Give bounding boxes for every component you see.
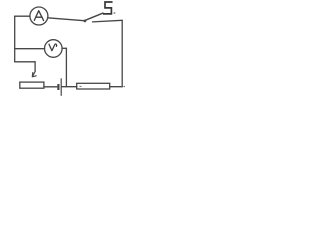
- wire voltmeter left horizontal: [15, 48, 45, 50]
- wire bottom-right horizontal: [110, 86, 123, 88]
- rheostat slider arrowhead: [32, 72, 36, 77]
- rheostat box: [20, 82, 44, 88]
- wire left vertical rail: [14, 16, 16, 62]
- wire rheostat slider vertical: [34, 62, 36, 72]
- voltmeter V1 circle: [45, 40, 63, 58]
- switch S label: [104, 2, 112, 14]
- ammeter A1 circle: [30, 7, 48, 25]
- resistor R inner mark: [80, 85, 82, 87]
- switch pivot dot: [84, 20, 87, 23]
- wire right vertical rail: [121, 20, 123, 86]
- resistor R box: [77, 83, 110, 89]
- wire voltmeter right horizontal: [62, 47, 66, 49]
- switch fixed contact wire: [93, 20, 123, 22]
- bottom-right corner tick: [123, 86, 125, 88]
- wire resistor to battery: [62, 86, 77, 88]
- ammeter A1 label: [34, 11, 43, 21]
- switch S label tick: [114, 12, 116, 14]
- wire battery to rheostat: [44, 86, 57, 88]
- wire top-left horizontal: [15, 15, 30, 17]
- wire voltmeter vertical down: [65, 48, 67, 87]
- voltmeter V1 label: [49, 44, 57, 51]
- battery cell long plate: [60, 78, 62, 96]
- battery cell short plate: [57, 84, 59, 90]
- wire ammeter to switch pivot: [48, 18, 85, 21]
- switch S blade: [86, 13, 104, 20]
- wire rheostat slider horizontal: [15, 61, 35, 63]
